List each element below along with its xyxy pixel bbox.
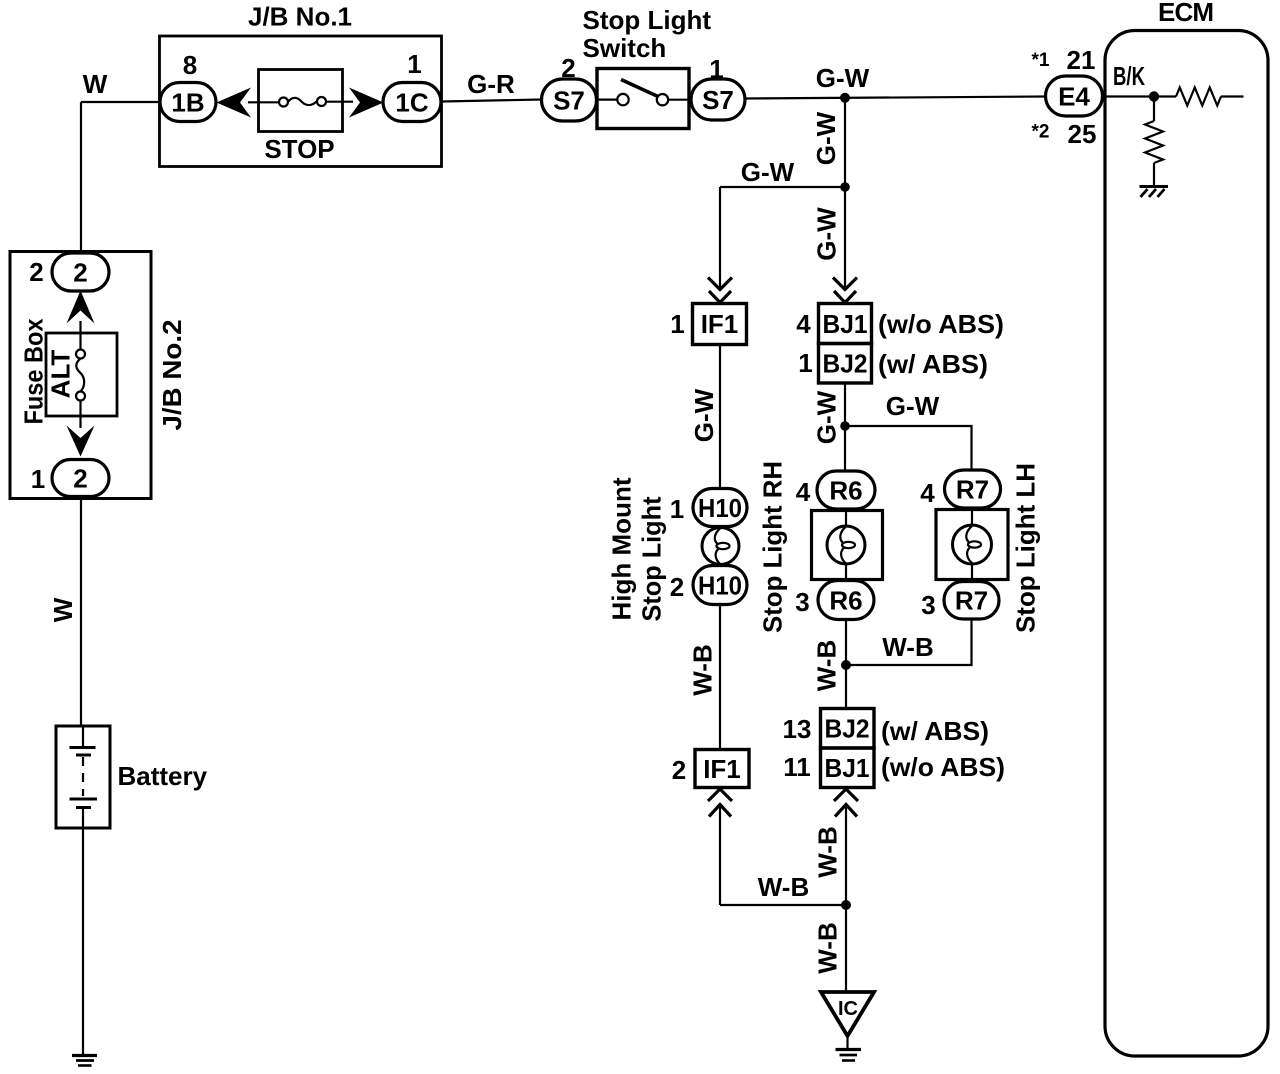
connector BJ1 top (819, 304, 872, 344)
wire BJ1 bottom down (845, 805, 847, 905)
stop light switch SW1 (597, 69, 689, 129)
ground in ECM (1140, 187, 1169, 198)
svg-text:2: 2 (73, 463, 87, 493)
wire G-W to ECM (745, 97, 1046, 99)
resistor horizontal in ECM (1154, 88, 1244, 106)
svg-text:Stop Light LH: Stop Light LH (1010, 463, 1040, 633)
node junction W-B (841, 660, 851, 670)
connector IF1 bottom (695, 750, 749, 788)
wire G-W main vertical drop (844, 98, 846, 290)
svg-text:4: 4 (796, 477, 811, 507)
svg-text:Switch: Switch (583, 33, 667, 63)
svg-text:1C: 1C (395, 88, 428, 118)
svg-text:(w/o ABS): (w/o ABS) (881, 752, 1005, 782)
svg-text:IC: IC (838, 998, 858, 1020)
fuse STOP symbol (248, 97, 353, 107)
resistor vertical in ECM (1145, 97, 1163, 186)
svg-text:G-W: G-W (816, 63, 870, 93)
svg-text:1: 1 (407, 49, 421, 79)
svg-text:IF1: IF1 (701, 309, 739, 339)
IC ground triangle (821, 992, 874, 1036)
svg-text:W-B: W-B (687, 644, 717, 695)
svg-text:W-B: W-B (812, 826, 842, 877)
wire G-R (442, 100, 542, 102)
lamp box stop light RH (812, 511, 883, 580)
svg-text:Fuse Box: Fuse Box (18, 318, 48, 424)
arrow down from ALT fuse (67, 426, 95, 457)
bulb high mount stop light (702, 528, 739, 565)
wire branch to high mount (720, 186, 845, 188)
svg-text:R6: R6 (829, 585, 862, 615)
node B/K (1149, 91, 1159, 101)
fuse STOP box (259, 70, 343, 132)
svg-text:R7: R7 (956, 474, 989, 504)
node junction top G-W (840, 93, 850, 103)
arrow up to connector 2 (67, 291, 95, 324)
svg-text:1: 1 (31, 464, 45, 494)
svg-text:1: 1 (670, 494, 684, 524)
connector BJ2 bottom (821, 709, 875, 749)
svg-text:IF1: IF1 (703, 754, 741, 784)
svg-text:G-W: G-W (811, 390, 841, 444)
wire IF1 to H10 (719, 345, 721, 490)
wire R6 down to junction (845, 620, 847, 709)
svg-text:*1: *1 (1032, 50, 1050, 71)
junction block J/B No.2 (10, 252, 151, 499)
wire W-B high mount down (719, 605, 721, 750)
wire to IC ground (845, 905, 847, 992)
lamp box stop light LH (936, 510, 1008, 580)
label High Mount Stop Light (606, 477, 666, 621)
connector R7 pin 3 (944, 582, 999, 620)
svg-text:2: 2 (670, 572, 684, 602)
svg-text:BJ1: BJ1 (825, 753, 870, 783)
svg-text:G-W: G-W (741, 157, 795, 187)
wire W to battery (80, 497, 82, 727)
connector IF1 top (693, 304, 747, 345)
wire battery to ground (82, 828, 84, 1054)
svg-text:8: 8 (183, 50, 197, 80)
svg-text:W-B: W-B (882, 632, 933, 662)
label Stop Light Switch (583, 5, 712, 63)
svg-text:W-B: W-B (812, 922, 842, 973)
arrow into BJ1 bottom (834, 789, 858, 817)
wire W horizontal battery feed to 1B (81, 101, 161, 103)
connector 1B (160, 83, 216, 122)
connector S7 pin 2 (542, 79, 597, 121)
wire branch from stop light LH (846, 619, 972, 665)
connector 2 bottom J/B No.2 (52, 460, 109, 497)
arrow into IF1 (708, 278, 732, 303)
svg-text:W: W (48, 597, 78, 622)
svg-text:2: 2 (29, 257, 43, 287)
svg-text:G-R: G-R (467, 69, 515, 99)
svg-text:G-W: G-W (689, 388, 719, 442)
svg-text:S7: S7 (553, 86, 585, 116)
svg-text:(w/o ABS): (w/o ABS) (878, 309, 1004, 339)
svg-text:W-B: W-B (758, 872, 809, 902)
svg-text:2: 2 (73, 257, 87, 287)
svg-text:11: 11 (783, 752, 811, 782)
connector H10 pin 2 (693, 566, 747, 605)
arrow toward 1B (217, 88, 252, 118)
svg-text:H10: H10 (698, 493, 742, 523)
svg-text:13: 13 (783, 714, 812, 744)
wire branch to stop light LH (845, 426, 972, 471)
svg-text:2: 2 (672, 755, 686, 785)
connector 2 top J/B No.2 (52, 253, 109, 291)
svg-text:W-B: W-B (811, 640, 841, 691)
svg-text:R6: R6 (829, 475, 862, 505)
connector BJ1 bottom (821, 748, 875, 788)
ground IC (836, 1050, 862, 1061)
wire IC to ground (846, 1036, 848, 1050)
svg-text:3: 3 (795, 587, 809, 617)
svg-text:S7: S7 (702, 85, 734, 115)
node junction to LH (840, 421, 850, 431)
fuse ALT symbol (76, 321, 85, 428)
svg-text:25: 25 (1068, 119, 1097, 149)
battery box (56, 726, 110, 828)
connector BJ2 top (819, 344, 872, 384)
svg-text:BJ2: BJ2 (825, 714, 870, 744)
svg-text:Stop Light RH: Stop Light RH (757, 461, 787, 633)
wire BJ2 down (844, 383, 846, 471)
svg-text:1B: 1B (171, 88, 204, 118)
svg-text:4: 4 (796, 309, 811, 339)
svg-text:STOP: STOP (264, 134, 334, 164)
connector S7 pin 1 (691, 79, 745, 120)
svg-text:*2: *2 (1032, 122, 1050, 143)
connector R6 pin 3 (818, 581, 874, 620)
connector 1C (383, 83, 441, 122)
connector H10 pin 1 (693, 489, 747, 527)
svg-text:Battery: Battery (118, 761, 208, 791)
fuse box ALT (46, 333, 117, 416)
svg-text:(w/ ABS): (w/ ABS) (881, 716, 989, 746)
svg-text:3: 3 (921, 590, 935, 620)
svg-text:G-W: G-W (886, 391, 940, 421)
svg-text:(w/ ABS): (w/ ABS) (878, 349, 988, 379)
pin label *2 25 (1032, 119, 1097, 149)
connector E4 (1046, 76, 1103, 116)
svg-text:1: 1 (798, 348, 812, 378)
wire into ECM (1103, 95, 1151, 97)
arrow toward 1C (349, 88, 384, 118)
wire IF1 bottom down (719, 805, 721, 905)
svg-text:21: 21 (1067, 45, 1096, 75)
connector R7 pin 4 (945, 470, 1001, 508)
arrow into IF1 bottom (708, 789, 732, 817)
svg-text:H10: H10 (698, 571, 742, 601)
wire W vertical to J/B No.2 (80, 102, 82, 254)
svg-text:BJ2: BJ2 (823, 349, 868, 379)
svg-text:B/K: B/K (1113, 61, 1145, 91)
ground battery (72, 1056, 97, 1066)
svg-text:G-W: G-W (811, 111, 841, 165)
svg-text:E4: E4 (1058, 81, 1090, 111)
bulb stop light LH (953, 510, 992, 580)
svg-text:ECM: ECM (1158, 0, 1214, 27)
svg-text:1: 1 (670, 309, 684, 339)
arrow into BJ1 (833, 278, 857, 303)
svg-text:4: 4 (920, 478, 935, 508)
svg-text:J/B No.2: J/B No.2 (157, 320, 187, 431)
node junction bottom (841, 900, 851, 910)
pin label *1 21 (1032, 45, 1096, 75)
node junction branch to IF1 (840, 182, 850, 192)
wire down to IF1 (719, 187, 721, 290)
ECM box (1105, 31, 1268, 1057)
wire bottom branch W-B (720, 904, 846, 906)
svg-text:W: W (83, 69, 108, 99)
svg-text:R7: R7 (955, 586, 988, 616)
junction block J/B No.1 (160, 36, 442, 167)
svg-text:High Mount: High Mount (606, 477, 636, 620)
svg-text:BJ1: BJ1 (823, 309, 868, 339)
bulb stop light RH (827, 511, 865, 580)
svg-text:J/B No.1: J/B No.1 (248, 2, 352, 32)
svg-text:Stop Light: Stop Light (636, 496, 666, 621)
battery symbol (70, 726, 98, 828)
svg-text:ALT: ALT (45, 350, 75, 399)
connector R6 pin 4 (817, 471, 875, 509)
svg-text:G-W: G-W (811, 207, 841, 261)
svg-text:Stop Light: Stop Light (583, 5, 712, 35)
